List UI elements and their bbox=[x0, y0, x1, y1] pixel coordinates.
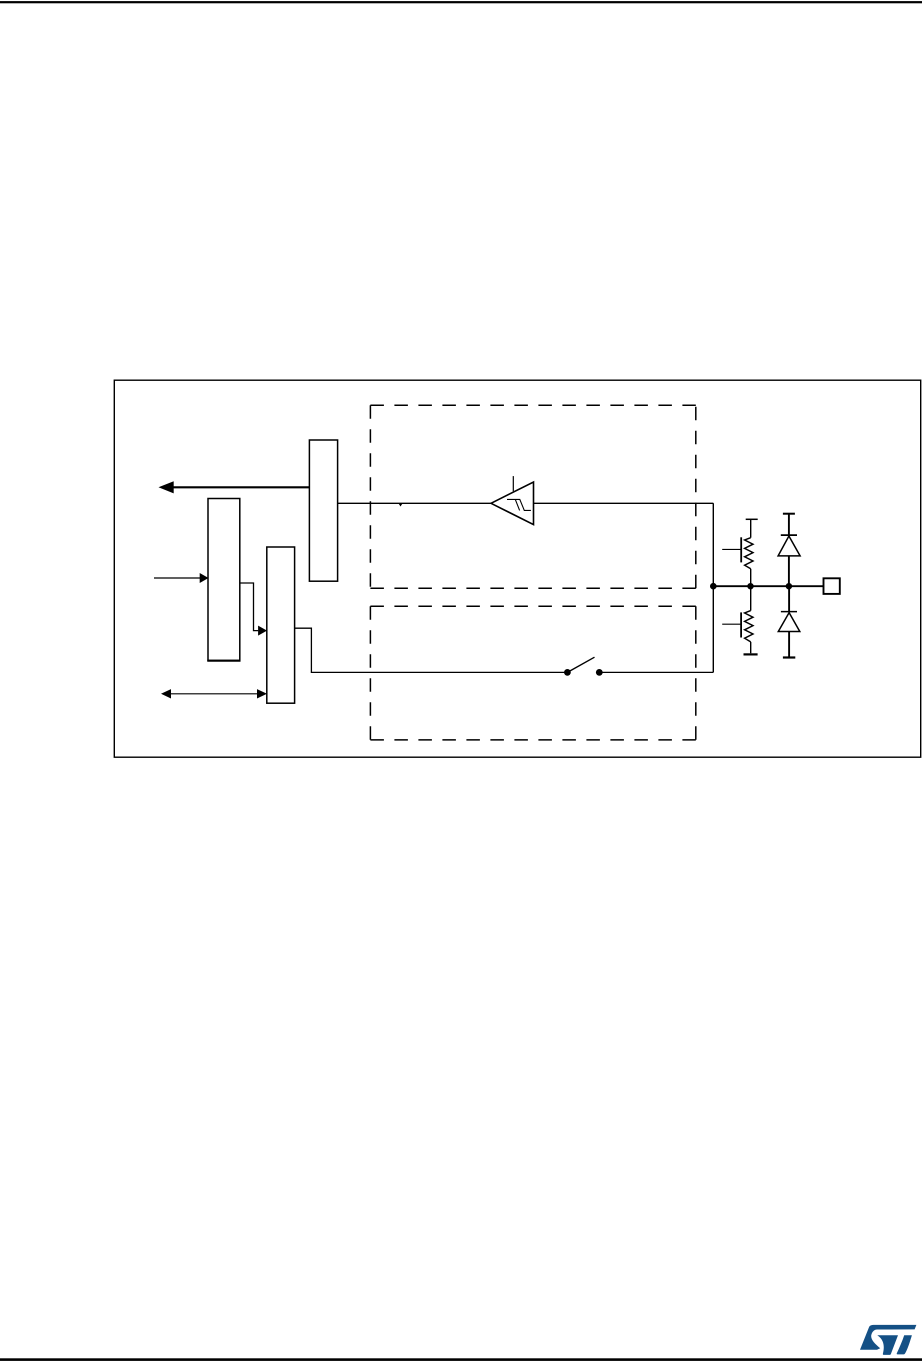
pull-down resistor bbox=[745, 611, 753, 642]
pull-down switch bar bbox=[740, 612, 742, 637]
VDD bar (top diode) bbox=[783, 513, 795, 515]
wire node to bottom diode bbox=[788, 586, 790, 611]
bus interface block bottom edge bbox=[207, 660, 240, 662]
pull-down control line bbox=[722, 623, 741, 625]
output data register block bbox=[267, 547, 295, 703]
I/O node line bbox=[713, 585, 823, 587]
read/write double arrow bbox=[170, 693, 259, 695]
protection diode D1 bbox=[778, 536, 800, 556]
VDD bar (pull-up) bbox=[746, 518, 758, 520]
schmitt tick bbox=[512, 476, 514, 491]
junction node 1 bbox=[710, 583, 717, 590]
switch to node wire bbox=[599, 671, 713, 673]
ST logo bbox=[860, 1325, 916, 1355]
junction node 3 bbox=[786, 583, 792, 589]
wire node to pull-down bbox=[750, 586, 752, 610]
VSS bar (pull-down) bbox=[744, 653, 758, 655]
wire bbox=[788, 632, 790, 657]
wire bbox=[750, 642, 752, 653]
output driver wire bbox=[295, 628, 568, 672]
wire bbox=[750, 569, 752, 586]
hysteresis symbol bbox=[507, 499, 531, 510]
input data register block bbox=[309, 440, 337, 581]
switch throw dot bbox=[596, 669, 603, 676]
switch lever bbox=[567, 657, 594, 672]
schmitt trigger U1 bbox=[491, 482, 534, 525]
wire bus to output register bbox=[240, 583, 258, 631]
top rule bbox=[0, 1, 922, 3]
top diode cathode bar bbox=[781, 534, 797, 536]
wire bbox=[750, 519, 752, 537]
pull-up switch bar bbox=[740, 537, 742, 562]
schmitt input wire bbox=[534, 502, 714, 504]
input driver dashed box bbox=[370, 405, 695, 588]
write arrow bbox=[154, 577, 200, 579]
VSS bar (bottom diode) bbox=[783, 656, 795, 658]
vertical wire to I/O node bbox=[712, 503, 714, 672]
wire bbox=[788, 514, 790, 535]
junction node 2 bbox=[747, 583, 753, 589]
bus interface block bbox=[208, 499, 240, 661]
bottom diode cathode bar bbox=[781, 611, 797, 613]
switch pole dot bbox=[564, 669, 571, 676]
pull-up control line bbox=[722, 548, 741, 550]
protection diode D2 bbox=[778, 613, 800, 632]
I/O pin pad bbox=[824, 578, 840, 594]
output driver dashed box bbox=[370, 606, 695, 740]
wire bbox=[788, 556, 790, 586]
pull-up resistor bbox=[745, 538, 753, 569]
notch on wire bbox=[399, 504, 403, 507]
figure frame bbox=[114, 380, 920, 757]
schmitt output wire bbox=[338, 502, 491, 504]
bottom rule bbox=[0, 1358, 922, 1361]
read arrow bbox=[173, 486, 310, 488]
